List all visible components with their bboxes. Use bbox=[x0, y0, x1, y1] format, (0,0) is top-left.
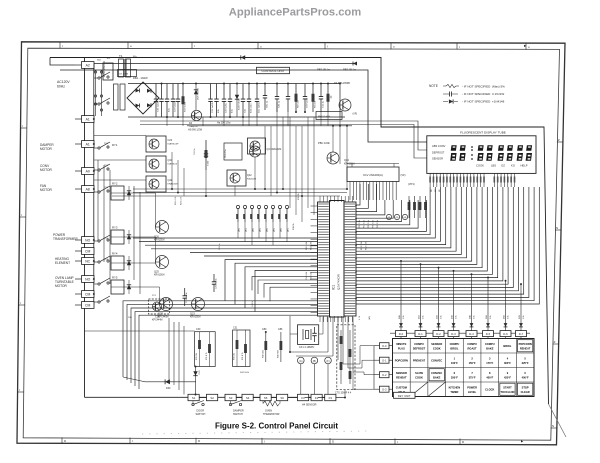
wire left riser b bbox=[95, 70, 97, 116]
outline top-right step (inner) bbox=[60, 70, 427, 142]
svg-text:S1: S1 bbox=[192, 396, 196, 400]
terminal box CM bbox=[82, 248, 95, 255]
svg-text:400°F: 400°F bbox=[486, 376, 493, 380]
capacitor C20 1a22k bbox=[210, 84, 212, 100]
terminal box CM bbox=[82, 302, 95, 309]
bridge rectifier DB1 bbox=[127, 82, 159, 114]
svg-text:R31 4.7k: R31 4.7k bbox=[206, 352, 208, 360]
wire cpu-left-mid 5 bbox=[204, 255, 318, 257]
wire under switches bbox=[192, 401, 194, 405]
svg-text:CLEAR: CLEAR bbox=[521, 390, 530, 394]
wire stub A8 bbox=[75, 188, 82, 190]
svg-text:(A): (A) bbox=[404, 216, 407, 219]
wire cpu-display 15 bbox=[356, 187, 508, 284]
relay contact at y=148 bbox=[98, 147, 100, 149]
wire cpu-left-mid2 2 bbox=[245, 267, 318, 308]
svg-text:A0: A0 bbox=[86, 169, 90, 173]
wire cpu-comb 1 bbox=[356, 184, 368, 208]
svg-text:(A5): (A5) bbox=[368, 316, 371, 320]
svg-text:O-3: O-3 bbox=[382, 388, 387, 392]
svg-text:C31: C31 bbox=[233, 327, 238, 330]
display pin stubs group2 bbox=[493, 173, 495, 187]
relay coil RY2 bbox=[111, 186, 124, 200]
key diode box D-3 bbox=[448, 331, 459, 337]
key diode box D-6 bbox=[500, 331, 511, 337]
outline left bus bbox=[84, 58, 86, 398]
wire top rail y63 bbox=[128, 63, 355, 65]
wire mid h3 bbox=[112, 195, 340, 197]
svg-text:T1: T1 bbox=[119, 54, 123, 58]
wire cpu-display 17 bbox=[356, 187, 519, 291]
svg-text:3.9k: 3.9k bbox=[523, 315, 525, 319]
wire cpu-display 5 bbox=[356, 187, 456, 251]
svg-text:COOK: COOK bbox=[415, 376, 423, 380]
wire key drop 1 bbox=[420, 264, 422, 331]
terminal box A1 bbox=[82, 116, 95, 123]
terminal box A8 bbox=[82, 186, 95, 193]
sheet border outer bbox=[17, 42, 565, 445]
svg-text:3.9k: 3.9k bbox=[456, 315, 458, 319]
node (F) bbox=[325, 357, 332, 364]
svg-text:F3: F3 bbox=[329, 396, 333, 400]
svg-text:CONTROL UNIT: CONTROL UNIT bbox=[261, 69, 284, 73]
svg-text:CM: CM bbox=[85, 303, 90, 307]
wire psu join bbox=[256, 117, 258, 126]
wire psu right drop bbox=[339, 84, 341, 118]
wire cpu-left-mid2 1 bbox=[235, 263, 318, 304]
svg-text:R62 3.9k: R62 3.9k bbox=[366, 241, 368, 250]
wire cpu-display 4 bbox=[356, 187, 451, 248]
svg-text:BROIL: BROIL bbox=[503, 344, 511, 348]
svg-text:C40 1u: C40 1u bbox=[279, 100, 281, 108]
scan dotted artifacts bbox=[142, 431, 368, 434]
transistor Q8 bbox=[330, 96, 332, 98]
svg-text:C30: C30 bbox=[196, 328, 201, 331]
wire key drop 7 bbox=[520, 284, 522, 331]
svg-text:AppliancePartsPros.com: AppliancePartsPros.com bbox=[229, 7, 361, 19]
key diode box D-4 bbox=[466, 331, 477, 337]
svg-text:COOK: COOK bbox=[476, 164, 484, 168]
resistor R40b bbox=[280, 332, 282, 362]
svg-text:C22 1u: C22 1u bbox=[194, 147, 196, 155]
svg-text:A1: A1 bbox=[86, 117, 90, 121]
key row terminal O-3 bbox=[380, 386, 390, 392]
oven thermistor bbox=[263, 401, 280, 406]
diode top D1 bbox=[241, 55, 245, 59]
key cell r3c2 slash bbox=[428, 382, 446, 397]
svg-text:3.9k: 3.9k bbox=[441, 315, 443, 319]
junction dots lowerleft bbox=[195, 366, 197, 368]
comb pins under 2N4403 bbox=[349, 182, 351, 201]
wire filament 1 bbox=[140, 121, 427, 150]
svg-text:(VF): (VF) bbox=[353, 113, 358, 116]
svg-text:NC: NC bbox=[85, 259, 90, 263]
svg-text:E24 HZK20: E24 HZK20 bbox=[239, 98, 241, 110]
svg-text:COOK: COOK bbox=[433, 347, 441, 351]
svg-text:I: I bbox=[21, 213, 22, 217]
svg-text:I: I bbox=[22, 124, 23, 128]
bottom terminal S3 bbox=[225, 394, 236, 400]
key row terminal O-1 bbox=[380, 357, 390, 363]
wire D30 run bbox=[145, 381, 196, 383]
capacitor extra3 bbox=[287, 84, 289, 97]
svg-text:450°F: 450°F bbox=[522, 376, 529, 380]
svg-text:350°F: 350°F bbox=[451, 376, 458, 380]
svg-text:CF1 4.19MHz: CF1 4.19MHz bbox=[299, 346, 315, 349]
svg-text:D2a 1u56u: D2a 1u56u bbox=[259, 102, 261, 113]
svg-text:COMPU: COMPU bbox=[450, 342, 460, 346]
svg-text:60Hz: 60Hz bbox=[57, 85, 65, 89]
relay coil RY3 bbox=[111, 230, 124, 244]
wire mid h6 bbox=[94, 179, 146, 181]
svg-text:- IF NOT SPECIFIED: - IF NOT SPECIFIED bbox=[462, 92, 491, 96]
svg-text:D-0: D-0 bbox=[399, 332, 404, 336]
svg-text:CM: CM bbox=[85, 292, 90, 296]
svg-text:R61 3.9k: R61 3.9k bbox=[361, 241, 363, 250]
svg-text:TOUCH-ON: TOUCH-ON bbox=[501, 390, 515, 394]
svg-text:CONVEC: CONVEC bbox=[431, 359, 442, 363]
svg-text:R31 4.7k: R31 4.7k bbox=[242, 352, 244, 360]
relay contact at y=104 bbox=[98, 103, 100, 105]
svg-text:D-6: D-6 bbox=[503, 332, 508, 336]
junction dots psu bbox=[195, 83, 197, 85]
svg-text:HS-5W 1/2W: HS-5W 1/2W bbox=[188, 129, 203, 132]
wire cpu-comb 7 bbox=[356, 200, 418, 228]
svg-text:+1N4148: +1N4148 bbox=[492, 100, 505, 104]
wire cn-a drops bbox=[237, 222, 239, 238]
svg-text:C10 1a22k: C10 1a22k bbox=[158, 101, 160, 112]
wire cpu-display 13 bbox=[356, 187, 498, 278]
svg-text:R40 760f: R40 760f bbox=[278, 350, 280, 358]
rc network C31 box bbox=[233, 330, 250, 367]
wire mid h1 bbox=[133, 188, 347, 190]
svg-text:D-2: D-2 bbox=[436, 332, 441, 336]
svg-text:C2 Habit2u: C2 Habit2u bbox=[174, 100, 177, 112]
svg-text:CONVEC: CONVEC bbox=[431, 371, 442, 375]
svg-text:Q25: Q25 bbox=[154, 271, 159, 274]
display tube box bbox=[427, 136, 536, 174]
capacitor C20mid bbox=[213, 274, 215, 282]
svg-text:REHEAT: REHEAT bbox=[396, 376, 407, 380]
crystal CF1 bbox=[298, 325, 319, 345]
svg-text:A2: A2 bbox=[86, 63, 90, 67]
svg-text:MOTOR: MOTOR bbox=[55, 284, 68, 288]
optocoupler C38 bbox=[149, 299, 170, 314]
wire stub A1 bbox=[75, 143, 82, 145]
svg-text:R23 4.7k: R23 4.7k bbox=[181, 196, 183, 205]
svg-text:3.9k: 3.9k bbox=[490, 315, 492, 319]
svg-text:(B): (B) bbox=[396, 217, 399, 219]
relay coil RY4 bbox=[111, 256, 124, 270]
node circles A B bbox=[386, 214, 391, 219]
capacitor C21mid bbox=[184, 288, 186, 296]
svg-text:O-2: O-2 bbox=[382, 373, 387, 377]
svg-text:H4 SENSOR: H4 SENSOR bbox=[302, 404, 317, 407]
svg-text:170°F: 170°F bbox=[486, 361, 493, 365]
capacitor E2a bbox=[166, 84, 168, 100]
wire key row feeds bbox=[360, 346, 374, 364]
resistor R52 bbox=[419, 196, 421, 218]
door switch bbox=[192, 403, 194, 405]
junction dots relay col bbox=[93, 118, 95, 120]
svg-text:SENSOR: SENSOR bbox=[396, 371, 407, 375]
relay coil RY5 bbox=[111, 280, 124, 294]
svg-text:KG: KG bbox=[511, 164, 515, 168]
key diode box D-2 bbox=[433, 331, 444, 337]
terminal box CM bbox=[82, 291, 95, 298]
svg-text:IC1: IC1 bbox=[332, 285, 336, 290]
sensor dashed box bbox=[337, 325, 355, 390]
capacitor E24 a22u bbox=[248, 84, 250, 100]
svg-text:VRS1 MA471K: VRS1 MA471K bbox=[103, 61, 106, 77]
transistor box Q4 bbox=[248, 138, 266, 154]
key unit label box bbox=[394, 392, 416, 398]
outline top-right step (outer) bbox=[50, 58, 549, 405]
key drop diode 4 bbox=[470, 323, 474, 327]
wire T1 top bbox=[94, 63, 128, 65]
key drop diode 2 bbox=[437, 323, 441, 327]
resistor R53 bbox=[425, 196, 427, 218]
wire cpu-display 6 bbox=[356, 187, 461, 255]
svg-text:COMPU: COMPU bbox=[485, 342, 495, 346]
svg-text:MINUTE: MINUTE bbox=[396, 342, 406, 346]
key drop diode 7 bbox=[519, 323, 523, 327]
capacitor D2a 1u56u bbox=[256, 84, 258, 100]
svg-text:P12 3.9k: P12 3.9k bbox=[306, 241, 308, 250]
svg-text:3 1%/1W: 3 1%/1W bbox=[492, 92, 504, 96]
svg-text:A1: A1 bbox=[86, 142, 90, 146]
wire cpu-left 0 bbox=[123, 301, 318, 377]
diode relay RY4 bbox=[127, 261, 131, 265]
paper crease bottom right bbox=[549, 404, 567, 437]
wire cpu-left-mid 2 bbox=[145, 244, 318, 246]
svg-text:I: I bbox=[19, 388, 20, 392]
wire top feed 1 bbox=[93, 64, 95, 71]
svg-text:C20 1a22k: C20 1a22k bbox=[212, 102, 214, 113]
svg-text:CH14.5u: CH14.5u bbox=[225, 149, 227, 158]
svg-text:BAKE: BAKE bbox=[433, 376, 441, 380]
key row terminal O-2 bbox=[380, 372, 390, 378]
wire psu rail lower bbox=[187, 125, 352, 127]
bottom terminal F2 bbox=[311, 394, 322, 400]
transistor Q23 bbox=[192, 298, 205, 311]
svg-text:(A): (A) bbox=[299, 360, 302, 363]
svg-text:SENSOR: SENSOR bbox=[431, 342, 442, 346]
svg-text:S6: S6 bbox=[280, 396, 284, 400]
svg-text:KRA101M: KRA101M bbox=[344, 163, 355, 166]
display pin stubs group1 bbox=[429, 173, 431, 187]
svg-text:- IF NOT SPECIFIED: - IF NOT SPECIFIED bbox=[462, 100, 491, 104]
sheet border inner bbox=[23, 48, 559, 440]
svg-text:SWITCH: SWITCH bbox=[233, 413, 243, 416]
svg-text:TIMER: TIMER bbox=[450, 390, 458, 394]
svg-text:KIA78L05: KIA78L05 bbox=[168, 163, 178, 166]
wire stub A2 bbox=[75, 64, 82, 66]
svg-text:RY4: RY4 bbox=[112, 252, 118, 256]
transistor Q44 bbox=[327, 152, 339, 164]
wire coil-transistor joins bbox=[124, 192, 156, 194]
svg-text:R30 10k: R30 10k bbox=[234, 353, 236, 360]
cpu top stubs bbox=[319, 196, 321, 202]
wire lower-left verticals bbox=[168, 318, 170, 382]
key drop diode 3 bbox=[452, 323, 456, 327]
wire cpu-comb 2 bbox=[356, 184, 377, 212]
wire left bus 2 bbox=[93, 65, 95, 305]
key diode box D-1 bbox=[415, 331, 426, 337]
terminal box NO bbox=[82, 276, 95, 283]
svg-text:KRA101M: KRA101M bbox=[168, 183, 178, 186]
node (B) bbox=[311, 357, 318, 364]
svg-text:QZA74XDR: QZA74XDR bbox=[337, 273, 341, 290]
svg-text:3.9k: 3.9k bbox=[508, 315, 510, 319]
svg-text:NOTE: NOTE bbox=[429, 84, 438, 88]
wire psu hangers bbox=[166, 117, 168, 126]
wire stub CM bbox=[75, 304, 82, 306]
wire cpu-display 1 bbox=[356, 187, 435, 238]
junction dots psu2 bbox=[161, 83, 163, 85]
wire cpu-display 7 bbox=[356, 187, 467, 258]
wire cpu-left-mid 0 bbox=[133, 237, 318, 239]
svg-text:D30: D30 bbox=[166, 387, 171, 390]
svg-text:POWER: POWER bbox=[467, 385, 477, 389]
bottom terminal F3 bbox=[325, 394, 336, 400]
varistor VRS1 bbox=[103, 63, 113, 80]
opto box CH14 bbox=[224, 143, 242, 160]
svg-text:REHEAT: REHEAT bbox=[520, 347, 531, 351]
svg-text:MOTOR: MOTOR bbox=[40, 188, 53, 192]
bottom terminal S6 bbox=[277, 394, 288, 400]
svg-text:(VF): (VF) bbox=[401, 173, 406, 177]
wire cpu-comb 5 bbox=[356, 200, 402, 222]
svg-text:Z: Z bbox=[554, 340, 556, 344]
svg-text:Q42: Q42 bbox=[247, 174, 252, 177]
bottom terminal S2 bbox=[207, 394, 218, 400]
svg-text:C20: C20 bbox=[168, 139, 173, 142]
capacitor C40x bbox=[276, 84, 278, 97]
svg-text:ELEMENT: ELEMENT bbox=[55, 261, 70, 265]
svg-text:R9 10k: R9 10k bbox=[315, 100, 317, 108]
svg-text:KEY UNIT: KEY UNIT bbox=[398, 394, 411, 398]
svg-text:KPC445M: KPC445M bbox=[158, 317, 169, 319]
svg-text:C11 1u: C11 1u bbox=[323, 100, 325, 108]
wire stub CM bbox=[75, 293, 82, 295]
svg-text:STOP: STOP bbox=[522, 385, 529, 389]
wire cpu-left-mid3 3 bbox=[270, 287, 318, 301]
svg-text:KITCHEN: KITCHEN bbox=[449, 385, 461, 389]
svg-text:ROAST: ROAST bbox=[468, 347, 477, 351]
wire cpu-left 3 bbox=[135, 312, 318, 386]
svg-text:D4 STA1353B: D4 STA1353B bbox=[334, 82, 350, 85]
relay contact at y=302 bbox=[98, 301, 100, 303]
svg-text:O-0: O-0 bbox=[382, 344, 387, 348]
svg-text:(Max) 5%: (Max) 5% bbox=[492, 85, 505, 89]
svg-text:O-1: O-1 bbox=[382, 359, 387, 363]
wire cpu-left-mid3 0 bbox=[252, 276, 318, 290]
svg-text:COMPU: COMPU bbox=[414, 342, 424, 346]
terminal box A1 bbox=[82, 141, 95, 148]
component box C8 top bbox=[118, 70, 137, 77]
svg-text:RY2: RY2 bbox=[112, 182, 118, 186]
relay contact at y=284 bbox=[98, 283, 100, 285]
wire cpu-left-mid 1 bbox=[139, 241, 318, 243]
capacitor C4a bbox=[242, 84, 244, 100]
svg-text:P14 3.9k: P14 3.9k bbox=[306, 271, 308, 280]
svg-text:CLOCK: CLOCK bbox=[485, 388, 494, 392]
diode D30 bbox=[165, 379, 170, 384]
svg-text:RY1: RY1 bbox=[112, 143, 118, 147]
wire cpu-display 16 bbox=[356, 187, 513, 288]
svg-text:ABS CONV: ABS CONV bbox=[432, 144, 446, 148]
svg-text:FLUORESCENT DISPLAY TUBE: FLUORESCENT DISPLAY TUBE bbox=[460, 131, 506, 135]
svg-text:P15 3.9k: P15 3.9k bbox=[311, 271, 313, 280]
resistor R50 bbox=[408, 196, 410, 218]
display digits row1 bbox=[451, 145, 457, 151]
svg-text:THERMISTOR: THERMISTOR bbox=[263, 413, 280, 416]
plug pin circles bbox=[94, 71, 96, 73]
wire cpu-comb 0 bbox=[356, 184, 360, 205]
wire relay verticals bbox=[97, 160, 99, 241]
wire diode-matrix joins bbox=[400, 337, 402, 339]
svg-text:D-1: D-1 bbox=[418, 332, 423, 336]
svg-text:CM: CM bbox=[85, 249, 90, 253]
wire cpu-display 21 bbox=[356, 187, 539, 304]
wire cpu-display 19 bbox=[356, 187, 529, 297]
transistor Q26 bbox=[156, 221, 169, 234]
key drop diode 6 bbox=[504, 323, 508, 327]
svg-text:BH14 1u60k: BH14 1u60k bbox=[318, 116, 331, 118]
key diode box D-0 bbox=[396, 331, 407, 337]
wire cpu-display 0 bbox=[356, 187, 430, 235]
wire diode row bus bbox=[390, 332, 530, 334]
svg-text:KRA101M: KRA101M bbox=[190, 316, 201, 319]
capacitor C740 bbox=[205, 140, 207, 154]
relay contact at y=262 bbox=[98, 261, 100, 263]
wire left long bottom bbox=[85, 330, 195, 332]
svg-text:70A(C05: 70A(C05 bbox=[189, 125, 198, 128]
svg-text:POPCORN: POPCORN bbox=[519, 342, 532, 346]
svg-text:COMPU: COMPU bbox=[467, 342, 477, 346]
svg-text:- IF NOT SPECIFIED: - IF NOT SPECIFIED bbox=[462, 85, 491, 89]
key cell r3c1 slash bbox=[410, 382, 428, 397]
wire mid h4 bbox=[94, 135, 146, 137]
terminal box NO bbox=[82, 237, 95, 244]
wire filament 2 bbox=[140, 125, 427, 159]
transistor box C20 bbox=[146, 136, 166, 152]
svg-text:PREHEAT: PREHEAT bbox=[413, 359, 426, 363]
svg-text:D-7: D-7 bbox=[519, 332, 524, 336]
svg-text:C21 Ha10u: C21 Ha10u bbox=[186, 292, 188, 303]
wire cpu-display 20 bbox=[356, 187, 534, 301]
relay contact at y=78 bbox=[98, 77, 100, 79]
wire bottom rail joins bbox=[199, 397, 206, 399]
svg-text:LEVEL: LEVEL bbox=[468, 390, 477, 394]
svg-text:S3: S3 bbox=[229, 396, 233, 400]
svg-text:D-4: D-4 bbox=[469, 332, 474, 336]
wire mid h2 bbox=[133, 192, 347, 194]
capacitor C10 1a22k bbox=[155, 84, 157, 100]
key matrix outer box bbox=[393, 339, 535, 397]
svg-text:SWITCH: SWITCH bbox=[196, 413, 206, 416]
svg-text:DEFROST: DEFROST bbox=[413, 347, 426, 351]
svg-text:KRA101M: KRA101M bbox=[154, 274, 165, 277]
cpu body IC1 bbox=[330, 201, 345, 318]
display digits row2 bbox=[450, 153, 456, 161]
svg-text:MOTOR: MOTOR bbox=[40, 168, 53, 172]
svg-text:N: N bbox=[556, 226, 558, 230]
wire cpu-comb 8 bbox=[356, 200, 426, 231]
wire cpu-display 9 bbox=[356, 187, 477, 264]
damper switch bbox=[229, 403, 231, 405]
